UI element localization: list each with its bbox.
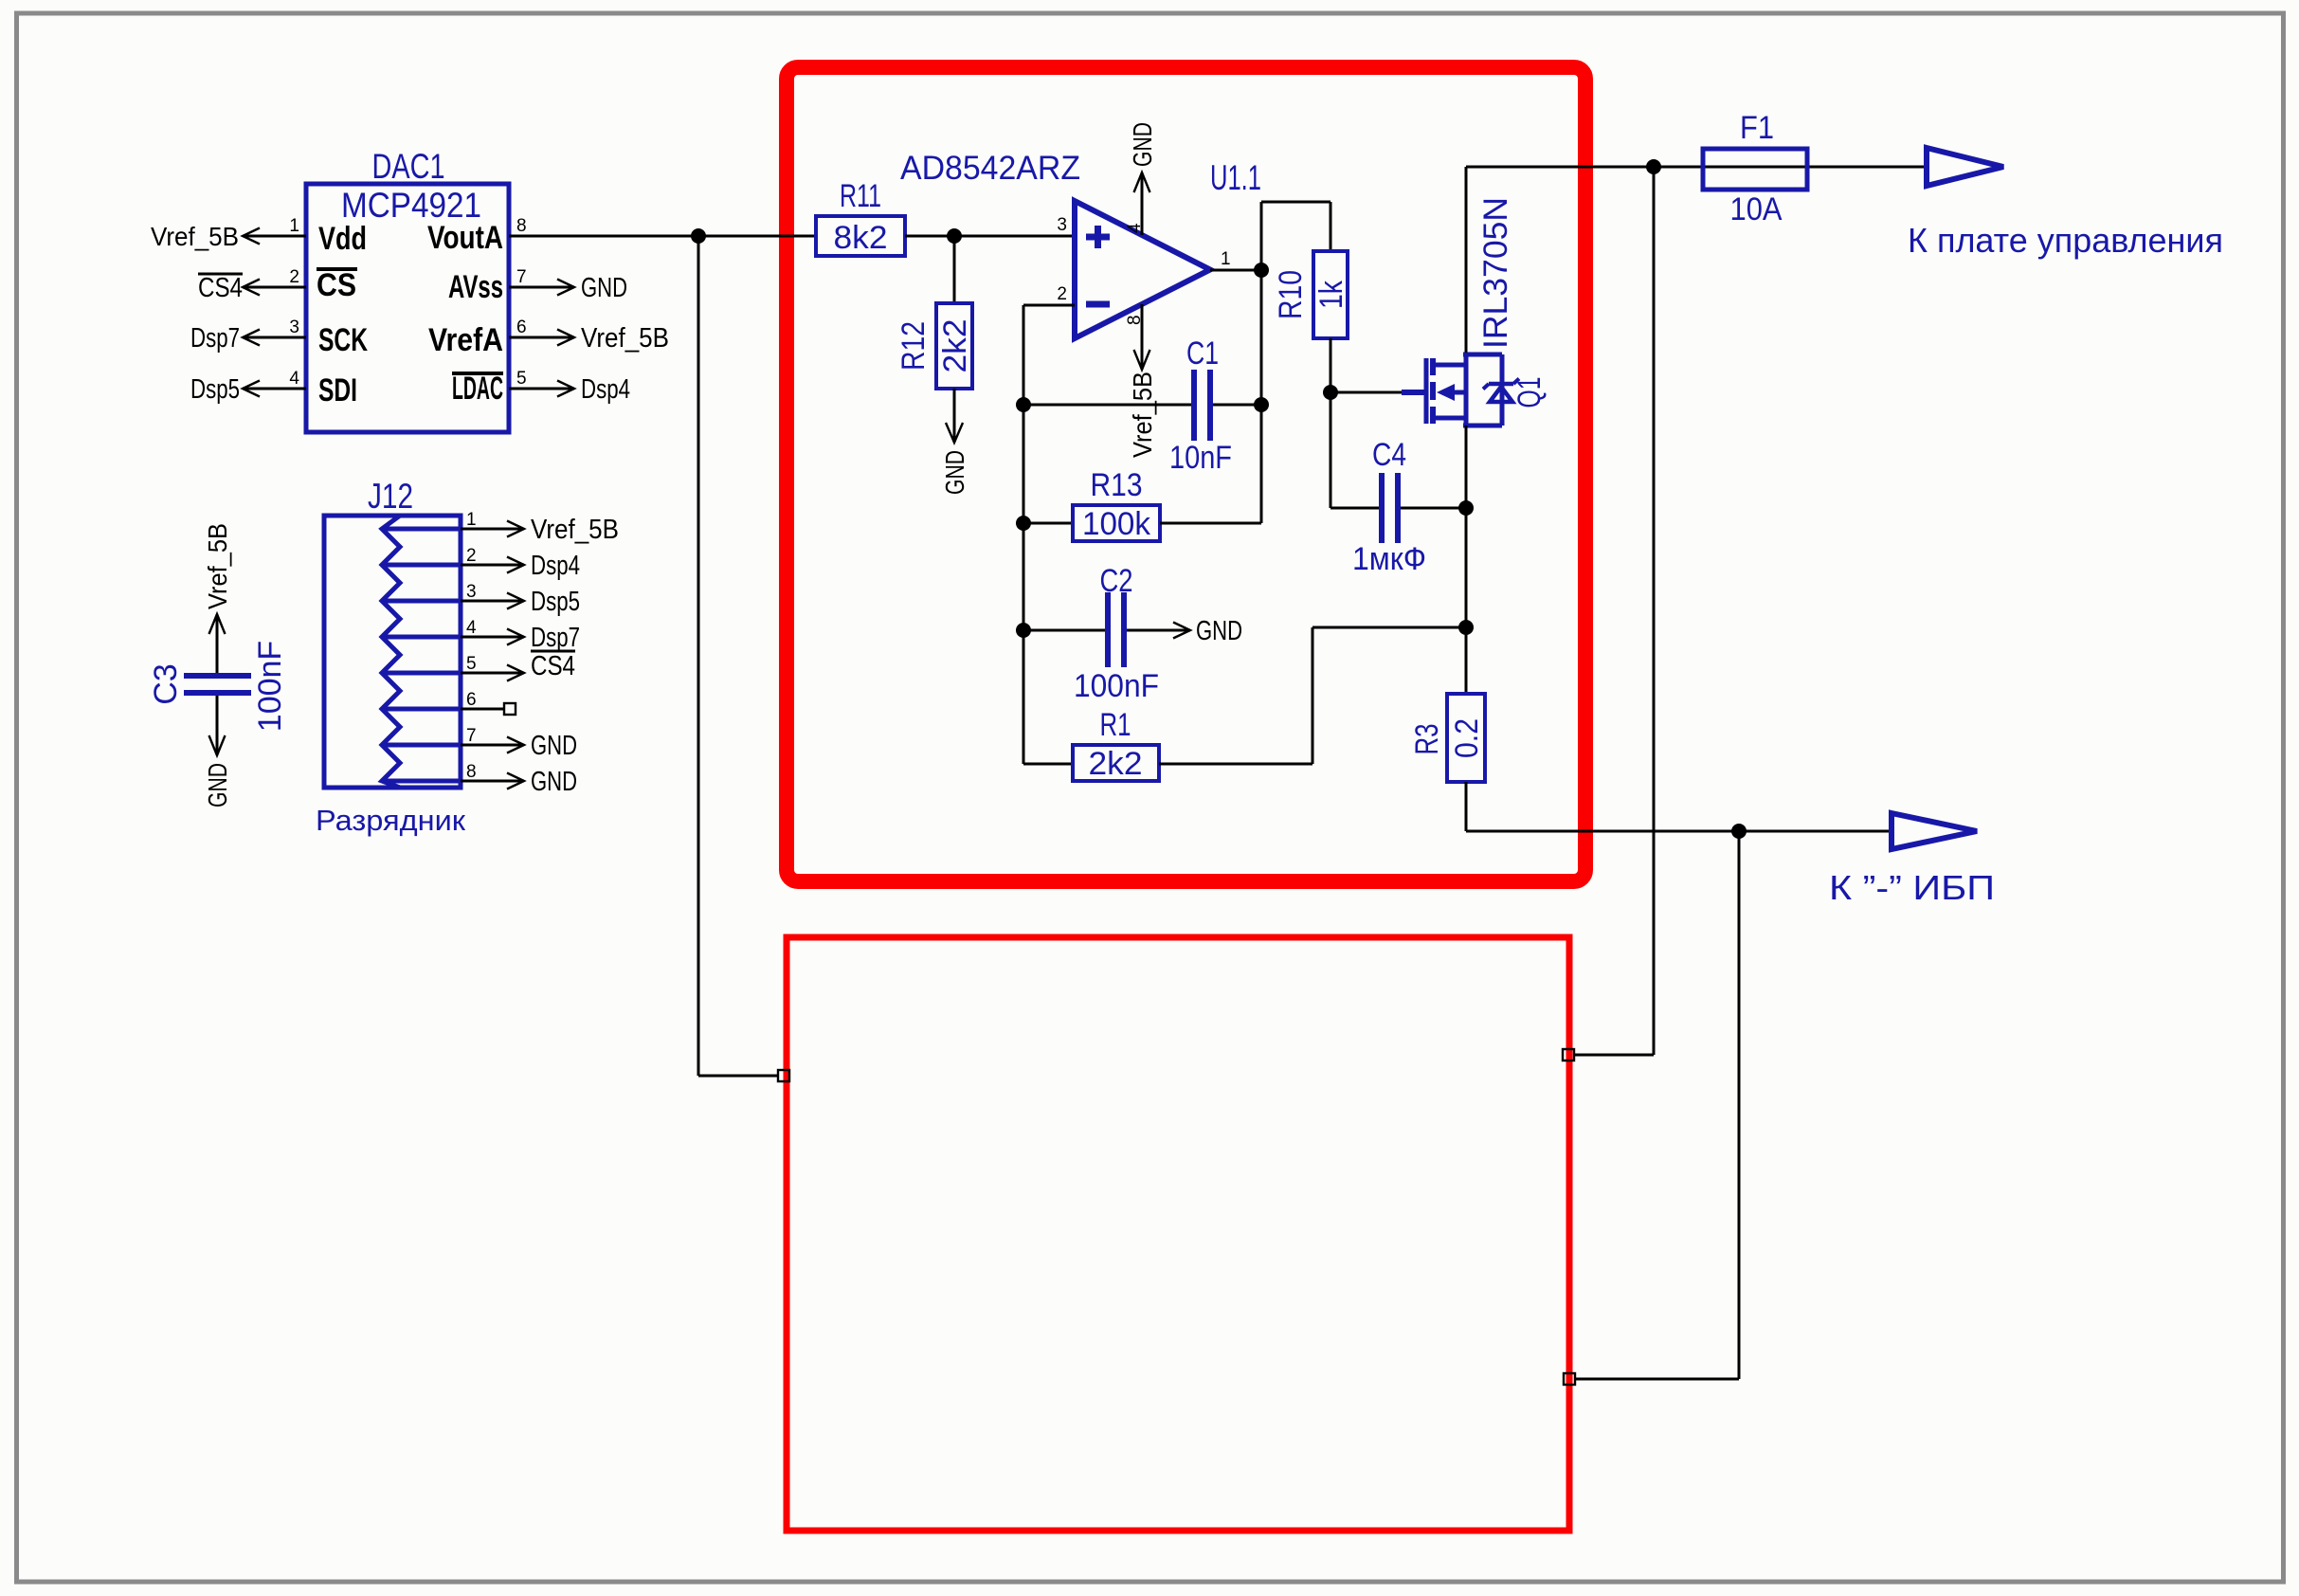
op-amp U1.1 triangle — [1075, 201, 1210, 338]
label R12 (rotated) — [896, 321, 932, 371]
value 8k2 (R11) — [834, 220, 888, 256]
value 1k (R10, rotated) — [1313, 280, 1349, 309]
svg-text:GND: GND — [940, 450, 969, 495]
svg-text:8: 8 — [1125, 315, 1145, 325]
svg-text:J12: J12 — [368, 477, 413, 516]
label DAC1 — [372, 147, 445, 186]
svg-text:R1: R1 — [1100, 707, 1131, 743]
svg-text:SDI: SDI — [318, 372, 357, 408]
svg-text:4: 4 — [289, 369, 299, 389]
pin number 4 — [289, 369, 299, 389]
label R11 — [840, 178, 881, 214]
wire C2 right to GND arrow — [1127, 623, 1190, 639]
svg-text:4: 4 — [1125, 223, 1145, 233]
svg-text:6: 6 — [466, 690, 477, 710]
svg-text:AVss: AVss — [448, 269, 503, 305]
capacitor C2 plates — [1108, 592, 1124, 667]
node C1 right junction — [1254, 397, 1269, 412]
capacitor C3 plates — [184, 676, 251, 693]
wire C2 left — [1023, 629, 1105, 632]
svg-text:4: 4 — [466, 618, 477, 638]
svg-text:2k2: 2k2 — [937, 319, 973, 373]
wire R11 to op-amp pin3 — [905, 235, 1075, 238]
pin name VoutA — [427, 220, 503, 256]
pin number 8 (rotated) — [1125, 315, 1145, 325]
svg-text:Dsp5: Dsp5 — [190, 374, 240, 405]
pin number 2 — [1057, 284, 1067, 304]
capacitor C1 plates — [1194, 370, 1210, 441]
resistor R1 — [1073, 745, 1159, 781]
wire output over to R10 top — [1261, 202, 1331, 251]
svg-text:2: 2 — [289, 267, 299, 287]
net label CS4 with overline (DAC pin2) — [198, 273, 243, 303]
pin number 3 — [1057, 215, 1067, 235]
svg-text:10nF: 10nF — [1169, 440, 1232, 476]
wire J12 pin 6 to open pad — [461, 708, 504, 711]
svg-text:R12: R12 — [896, 321, 932, 371]
wire C4 right to source rail — [1401, 507, 1466, 510]
pin number 8 (J12) — [466, 762, 477, 782]
net label Vref_5B (J12 pin 1) — [531, 515, 619, 545]
label K plate upravleniya — [1908, 221, 2223, 260]
label F1 — [1740, 110, 1774, 146]
svg-text:R13: R13 — [1091, 467, 1143, 503]
pin number 2 — [289, 267, 299, 287]
svg-text:DAC1: DAC1 — [372, 147, 445, 186]
wire VoutA node down to lower block pin — [698, 236, 778, 1076]
net label Vref_5B (op-amp pin8, rotated) — [1128, 372, 1157, 458]
net label GND (J12 pin 7) — [531, 731, 577, 761]
open pad square (J12 pin 6) — [504, 703, 516, 715]
resistor R11 — [816, 216, 905, 256]
net label GND (below R12, rotated) — [940, 450, 969, 495]
connector J12 zigzag element — [382, 516, 400, 788]
label R1 — [1100, 707, 1131, 743]
net label Dsp7 (DAC pin3) — [190, 323, 240, 354]
label Q1 (rotated) — [1512, 377, 1548, 408]
node C4/source junction — [1458, 500, 1474, 516]
pin name Vdd — [318, 221, 367, 257]
label U1.1 — [1210, 158, 1261, 197]
connector J12 body — [324, 516, 461, 788]
wire DAC1 pin 6 — [509, 330, 574, 346]
wire DAC1 pin 4 — [243, 381, 306, 397]
value 0.2 (R3, rotated) — [1449, 718, 1485, 758]
svg-text:GND: GND — [581, 273, 627, 303]
svg-text:Vref_5B: Vref_5B — [151, 222, 239, 251]
svg-text:7: 7 — [466, 726, 477, 746]
wire R10 bottom to gate node — [1330, 338, 1332, 392]
label J12 — [368, 477, 413, 516]
pin name VrefA — [428, 322, 503, 358]
svg-text:F1: F1 — [1740, 110, 1774, 146]
svg-text:C3: C3 — [148, 663, 184, 704]
label R10 (rotated) — [1273, 270, 1309, 319]
svg-text:Dsp7: Dsp7 — [531, 623, 580, 653]
svg-text:GND: GND — [531, 767, 577, 797]
wire fuse junction down to lower block pin — [1574, 167, 1654, 1055]
svg-text:GND: GND — [531, 731, 577, 761]
connector J12 pin 2 stub — [382, 563, 461, 568]
svg-text:Q1: Q1 — [1512, 377, 1548, 408]
connector arrow K minus UPS — [1892, 813, 1977, 849]
svg-text:1мкФ: 1мкФ — [1352, 541, 1426, 577]
wire op-amp pin8 to Vref_5B arrow down — [1134, 304, 1150, 370]
net label Dsp5 (DAC pin4) — [190, 374, 240, 405]
wire inverting input vertical rail — [1023, 305, 1025, 764]
svg-text:3: 3 — [466, 582, 477, 602]
net label Vref_5B (DAC pin1) — [151, 222, 239, 251]
wire gate node to Q1 gate — [1331, 391, 1402, 394]
svg-text:SCK: SCK — [318, 322, 368, 358]
svg-text:0.2: 0.2 — [1449, 718, 1485, 758]
net label GND — [581, 273, 627, 303]
label C1 — [1186, 336, 1219, 372]
value 10A (F1) — [1730, 191, 1783, 227]
svg-text:1: 1 — [289, 216, 299, 236]
pin number 3 — [289, 317, 299, 337]
svg-text:R3: R3 — [1409, 724, 1445, 755]
pin number 5 (J12) — [466, 654, 477, 674]
svg-text:C2: C2 — [1100, 563, 1133, 599]
pad square (lower block right bottom pin) — [1564, 1373, 1575, 1385]
pin name SDI — [318, 372, 357, 408]
capacitor C4 plates — [1382, 473, 1398, 543]
connector J12 pin 7 stub — [382, 743, 461, 748]
svg-text:8: 8 — [516, 216, 527, 236]
pin number 1 — [1221, 249, 1231, 269]
value 10nF (C1) — [1169, 440, 1232, 476]
net label Dsp4 — [581, 374, 630, 405]
wire J12 pin 7 — [461, 737, 524, 753]
connector arrow K plate upravleniya — [1927, 148, 2003, 186]
connector J12 pin 1 stub — [382, 527, 461, 532]
wire drain rail to control-board arrow — [1466, 166, 1927, 169]
pin name AVss — [448, 269, 503, 305]
svg-text:1k: 1k — [1313, 280, 1349, 309]
svg-text:10A: 10A — [1730, 191, 1783, 227]
label R3 (rotated) — [1409, 724, 1445, 755]
pin number 4 (rotated) — [1125, 223, 1145, 233]
pin number 8 — [516, 216, 527, 236]
wire J12 pin 2 — [461, 557, 524, 573]
wire gate node down to C4 — [1331, 392, 1379, 508]
svg-text:CS4: CS4 — [198, 273, 243, 303]
wire J12 pin 8 — [461, 773, 524, 789]
node UPS minus junction — [1731, 824, 1747, 839]
value 100nF (C2) — [1074, 668, 1159, 704]
wire DAC1 pin 2 — [243, 280, 306, 296]
wire R13 left — [1023, 522, 1073, 525]
svg-text:7: 7 — [516, 267, 527, 287]
fuse F1 — [1703, 149, 1807, 190]
wire DAC1 pin 8 VoutA to R11 — [509, 235, 816, 238]
svg-text:2k2: 2k2 — [1089, 746, 1143, 782]
svg-text:R11: R11 — [840, 178, 881, 214]
svg-text:Vref_5B: Vref_5B — [203, 523, 232, 609]
wire C3 bottom to GND — [209, 696, 226, 755]
label C2 — [1100, 563, 1133, 599]
thin red box (lower block) — [787, 937, 1569, 1531]
wire C3 top to Vref_5B — [209, 614, 226, 673]
pin number 1 (J12) — [466, 510, 477, 530]
wire R1 right to source rail — [1159, 627, 1466, 764]
svg-text:8: 8 — [466, 762, 477, 782]
label C4 — [1372, 437, 1406, 473]
resistor R13 — [1073, 505, 1160, 541]
svg-text:CS: CS — [317, 267, 356, 303]
wire J12 pin 3 — [461, 593, 524, 609]
pin number 7 — [516, 267, 527, 287]
svg-text:5: 5 — [516, 369, 527, 389]
wire DAC1 pin 5 — [509, 381, 574, 397]
svg-text:К ”-” ИБП: К ”-” ИБП — [1829, 868, 1995, 907]
node source/R1 junction — [1458, 620, 1474, 635]
svg-text:6: 6 — [516, 317, 527, 337]
resistor R3 — [1447, 694, 1485, 782]
connector J12 pin 8 stub — [382, 779, 461, 784]
transistor Q1 IRL3705N symbol — [1402, 354, 1502, 426]
wire junction to R12 — [953, 236, 956, 303]
pin number 7 (J12) — [466, 726, 477, 746]
wire DAC1 pin 7 — [509, 280, 574, 296]
svg-text:3: 3 — [289, 317, 299, 337]
pin number 3 (J12) — [466, 582, 477, 602]
net label Dsp7 (J12 pin 4) — [531, 623, 580, 653]
wire op-amp pin2 stub — [1023, 304, 1075, 307]
svg-text:Dsp4: Dsp4 — [531, 551, 580, 581]
wire J12 pin 5 — [461, 665, 524, 681]
pad square (lower block right top pin) — [1563, 1049, 1574, 1061]
label C3 — [148, 663, 184, 704]
label K "-" UPS — [1829, 868, 1995, 907]
net label GND (J12 pin 8) — [531, 767, 577, 797]
node VoutA junction — [691, 228, 706, 244]
svg-text:C1: C1 — [1186, 336, 1219, 372]
wire Q1 source down to R3 — [1465, 426, 1468, 694]
label IRL3705N (rotated) — [1477, 197, 1514, 349]
wire output vertical rail — [1260, 202, 1263, 523]
node op-amp output junction — [1254, 263, 1269, 278]
pin name SCK — [318, 322, 368, 358]
svg-text:2: 2 — [1057, 284, 1067, 304]
node C1 left junction — [1016, 397, 1031, 412]
pin number 2 (J12) — [466, 546, 477, 566]
node R11/R12/pin3 junction — [947, 228, 962, 244]
connector J12 pin 6 stub — [382, 707, 461, 712]
wire DAC1 pin 3 — [243, 330, 306, 346]
wire C1 left — [1023, 404, 1191, 407]
node gate junction — [1323, 385, 1338, 400]
thick red highlight box (amplifier section) — [787, 67, 1585, 881]
wire DAC1 pin 1 — [243, 228, 306, 245]
connector J12 pin 3 stub — [382, 599, 461, 604]
svg-text:GND: GND — [1128, 122, 1157, 167]
connector J12 pin 4 stub — [382, 635, 461, 640]
wire J12 pin 4 — [461, 629, 524, 645]
wire Q1 drain up to fuse rail — [1465, 167, 1468, 353]
svg-text:AD8542ARZ: AD8542ARZ — [900, 150, 1080, 187]
net label CS4 (J12 pin 5) — [531, 651, 575, 681]
value 2k2 (R12, rotated) — [937, 319, 973, 373]
wire C1 right — [1213, 404, 1261, 407]
body diode of Q1 — [1483, 354, 1519, 426]
wire op-amp pin4 to GND arrow up — [1134, 172, 1150, 235]
pin name CS with overline — [317, 267, 357, 303]
net label Vref_5B — [581, 323, 669, 354]
svg-text:IRL3705N: IRL3705N — [1477, 197, 1514, 349]
pin number 4 (J12) — [466, 618, 477, 638]
svg-text:LDAC: LDAC — [452, 371, 503, 407]
svg-text:К плате управления: К плате управления — [1908, 221, 2223, 260]
net label Dsp5 (J12 pin 3) — [531, 587, 580, 617]
svg-text:VrefA: VrefA — [428, 322, 503, 358]
svg-text:R10: R10 — [1273, 270, 1309, 319]
label AD8542ARZ — [900, 150, 1080, 187]
value 2k2 (R1) — [1089, 746, 1143, 782]
resistor R10 — [1313, 251, 1348, 338]
pin name LDAC with overline — [452, 371, 503, 407]
pad square (lower block left pin) — [778, 1070, 789, 1081]
svg-text:VoutA: VoutA — [427, 220, 503, 256]
net label GND (C2) — [1196, 616, 1242, 646]
svg-text:Dsp4: Dsp4 — [581, 374, 630, 405]
svg-text:8k2: 8k2 — [834, 220, 888, 256]
svg-text:Dsp7: Dsp7 — [190, 323, 240, 354]
net label Vref_5B (C3 top, rotated) — [203, 523, 232, 609]
svg-text:Разрядник: Разрядник — [316, 804, 465, 837]
IC DAC1 MCP4921 body — [306, 184, 509, 432]
svg-text:Dsp5: Dsp5 — [531, 587, 580, 617]
wire J12 pin 1 — [461, 521, 524, 537]
svg-text:1: 1 — [466, 510, 477, 530]
op-amp minus input marker — [1086, 301, 1110, 308]
pin number 6 (J12) — [466, 690, 477, 710]
svg-text:Vref_5B: Vref_5B — [531, 515, 619, 545]
op-amp plus input marker — [1086, 226, 1110, 248]
svg-text:1: 1 — [1221, 249, 1231, 269]
wire R3 bottom to UPS minus rail — [1466, 782, 1892, 831]
svg-text:U1.1: U1.1 — [1210, 158, 1261, 197]
value 100k (R13) — [1082, 506, 1151, 542]
wire R13 right — [1160, 522, 1261, 525]
connector J12 pin 5 stub — [382, 671, 461, 676]
wire op-amp output — [1210, 269, 1261, 272]
label Razryadnik — [316, 804, 465, 837]
label R13 — [1091, 467, 1143, 503]
net label GND (C3 bottom, rotated) — [203, 763, 232, 807]
node fuse rail junction — [1646, 159, 1661, 174]
svg-text:C4: C4 — [1372, 437, 1406, 473]
svg-text:100nF: 100nF — [1074, 668, 1159, 704]
svg-text:Vdd: Vdd — [318, 221, 367, 257]
value 1mkF (C4) — [1352, 541, 1426, 577]
svg-text:Vref_5B: Vref_5B — [581, 323, 669, 354]
svg-text:5: 5 — [466, 654, 477, 674]
svg-text:MCP4921: MCP4921 — [341, 186, 481, 225]
node R13 left junction — [1016, 516, 1031, 531]
svg-text:100nF: 100nF — [252, 641, 288, 732]
svg-text:Vref_5B: Vref_5B — [1128, 372, 1157, 458]
pin number 5 — [516, 369, 527, 389]
svg-text:100k: 100k — [1082, 506, 1151, 542]
value 100nF (C3) — [252, 641, 288, 732]
wire junction down to lower block pin — [1575, 831, 1739, 1379]
svg-text:CS4: CS4 — [531, 651, 575, 681]
wire R12 to GND arrow — [946, 389, 963, 443]
label MCP4921 — [341, 186, 481, 225]
svg-text:2: 2 — [466, 546, 477, 566]
svg-text:3: 3 — [1057, 215, 1067, 235]
node C2 left junction — [1016, 623, 1031, 638]
wire R1 left — [1023, 763, 1073, 766]
pin number 1 — [289, 216, 299, 236]
pin number 6 — [516, 317, 527, 337]
svg-text:GND: GND — [203, 763, 232, 807]
svg-text:GND: GND — [1196, 616, 1242, 646]
resistor R12 — [936, 303, 972, 389]
net label Dsp4 (J12 pin 2) — [531, 551, 580, 581]
net label GND (op-amp pin4, rotated) — [1128, 122, 1157, 167]
